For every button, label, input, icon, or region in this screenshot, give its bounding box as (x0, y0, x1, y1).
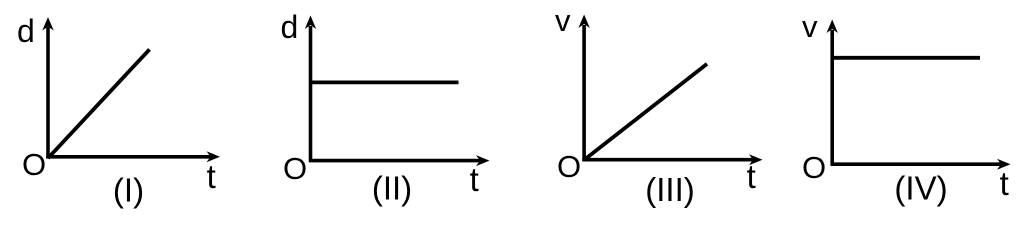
line d=const (310, 81, 459, 85)
svg-text:t: t (1000, 165, 1009, 202)
svg-text:t: t (747, 158, 756, 195)
x-axis III (582, 158, 754, 162)
graph IV: v constant (802, 9, 1011, 207)
line v=kt (584, 64, 707, 160)
y-axis III (582, 25, 586, 161)
svg-text:v: v (802, 9, 818, 44)
svg-text:t: t (470, 161, 479, 198)
svg-text:(I): (I) (113, 172, 144, 209)
x-axis II (309, 159, 481, 163)
svg-text:O: O (283, 151, 307, 186)
graph II: d constant (281, 9, 490, 207)
x-axis I (46, 155, 212, 159)
svg-text:O: O (557, 149, 581, 184)
line v=const (832, 56, 980, 60)
x-axis IV (831, 162, 1003, 166)
graph III: v vs t rising line (555, 3, 763, 208)
graph I: d vs t rising line (17, 13, 220, 209)
svg-text:(II): (II) (372, 170, 412, 207)
svg-text:O: O (802, 150, 826, 185)
y-axis IV (830, 30, 834, 165)
svg-text:v: v (555, 3, 571, 38)
svg-text:O: O (22, 147, 46, 182)
y-axis II (309, 26, 313, 162)
svg-text:d: d (17, 13, 35, 49)
svg-text:(III): (III) (645, 171, 694, 208)
y-axis I (46, 27, 50, 158)
line d=kt (48, 49, 150, 158)
svg-text:d: d (281, 9, 299, 45)
svg-text:(IV): (IV) (894, 170, 947, 207)
svg-text:t: t (207, 158, 216, 195)
